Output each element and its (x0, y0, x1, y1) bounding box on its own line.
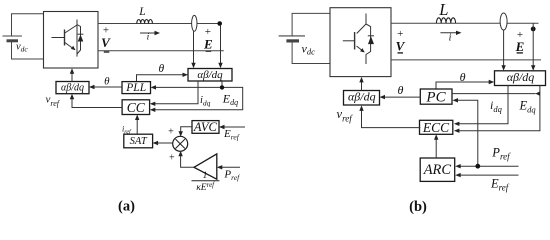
measurement wire from node E to abc/dq (b) (532, 23, 534, 65)
node dot E terminal (a) (217, 21, 222, 26)
svg-text:1: 1 (203, 171, 208, 181)
wire theta PC to abdq4 (b) (385, 96, 420, 98)
measurement wire from ellipse to abc/dq (b) (503, 30, 505, 66)
wire vref CC to abdq2 (a) (72, 99, 122, 108)
sensor ellipse (a) (192, 15, 197, 31)
current arrow i (a) (140, 32, 156, 34)
svg-text:(b): (b) (409, 199, 427, 215)
wire abdq2 to inverter (a) (71, 74, 73, 82)
svg-text:vdc: vdc (16, 42, 28, 54)
battery Vdc (b) (279, 13, 331, 63)
wire bottom return (b) (391, 59, 541, 61)
node dot Pref (b) (475, 164, 480, 169)
svg-text:Eref: Eref (490, 176, 510, 192)
svg-text:+: + (169, 153, 175, 164)
wire Pref to triangle (a) (222, 166, 240, 168)
wire Eref to ARC (b) (460, 174, 518, 176)
measurement wire from node E to abc/dq (a) (220, 25, 222, 63)
IGBT Q2 with diode (b) (343, 14, 374, 65)
sensor ellipse (b) (500, 13, 507, 30)
battery Vdc (a) (3, 14, 44, 59)
transform block abdq2 (a left) (56, 82, 89, 94)
wire Edq to PLL (a) (154, 81, 242, 110)
svg-text:αβ/dq: αβ/dq (197, 69, 223, 81)
PC block (b) (420, 89, 452, 104)
wire sum to SAT (a) (158, 142, 173, 144)
svg-text:+: + (168, 127, 174, 138)
ECC block (b) (420, 120, 453, 134)
svg-text:αβ/dq: αβ/dq (61, 83, 84, 94)
wire Pref to ARC and PC (b) (458, 100, 519, 166)
wire Edq vertical and to ECC (b) (459, 86, 540, 131)
wire AVC to sum (a) (181, 127, 192, 132)
gain triangle 1/kEref (a) (194, 154, 217, 179)
svg-text:i: i (147, 32, 150, 42)
svg-text:L: L (138, 6, 145, 18)
svg-text:κEref: κEref (196, 181, 215, 193)
wire theta PC to abdq3 (b) (436, 82, 490, 89)
ARC block (b) (420, 158, 455, 181)
svg-text:θ: θ (104, 75, 110, 87)
SAT block (a) (124, 134, 153, 148)
wire theta PLL to abdq1 (a) (137, 75, 184, 82)
node dot Edq (a) (220, 85, 224, 89)
current arrow i (b) (440, 32, 457, 34)
svg-text:E: E (515, 39, 525, 54)
svg-text:CC: CC (127, 100, 146, 115)
wire Edq branch to PC (b) (452, 93, 536, 95)
svg-text:Edq: Edq (519, 99, 537, 115)
svg-text:αβ/dq: αβ/dq (507, 70, 535, 84)
svg-text:θ: θ (460, 70, 466, 84)
wire V+ top (a) (98, 23, 221, 25)
wire Eref to AVC (a) (224, 126, 245, 128)
svg-text:vref: vref (46, 94, 61, 109)
svg-text:θ: θ (158, 63, 164, 75)
inverter box U2 (b) (330, 8, 391, 77)
svg-text:vdc: vdc (302, 42, 316, 57)
wire idq to CC (a) (155, 81, 198, 104)
wire bottom return (a) (98, 50, 224, 52)
svg-text:Eref: Eref (223, 128, 240, 142)
svg-text:ECC: ECC (422, 120, 450, 135)
svg-text:idq: idq (200, 95, 211, 108)
node dot E terminal (b) (531, 27, 536, 32)
summing junction (a) (173, 136, 188, 151)
wire idq to ECC (b) (459, 86, 508, 124)
wire theta PLL to abdq2 (a) (94, 86, 122, 88)
PLL block (a) (122, 82, 151, 94)
svg-text:αβ/dq: αβ/dq (348, 90, 376, 104)
transform block abdq3 (b right) (495, 71, 546, 86)
measurement wire from ellipse to abc/dq (a) (193, 31, 195, 63)
inductor L (b) (436, 18, 455, 24)
wire abdq4 to inverter (b) (361, 82, 363, 91)
CC block (a) (122, 100, 150, 115)
svg-text:Edq: Edq (222, 92, 238, 108)
svg-text:PC: PC (425, 89, 446, 105)
wire ARC to ECC (b) (435, 140, 437, 159)
svg-text:θ: θ (397, 83, 403, 97)
wire triangle to sum (a) (181, 156, 194, 167)
AVC block (a) (192, 121, 219, 134)
svg-text:(a): (a) (118, 199, 135, 215)
svg-text:vref: vref (337, 107, 354, 124)
svg-text:Pref: Pref (491, 146, 511, 162)
svg-text:i: i (449, 33, 452, 44)
inductor L (a) (137, 20, 153, 24)
svg-text:AVC: AVC (193, 120, 218, 134)
transform block abdq4 (b left) (344, 91, 380, 106)
svg-text:idq: idq (490, 98, 503, 114)
svg-text:L: L (438, 0, 448, 19)
svg-text:SAT: SAT (130, 136, 148, 147)
svg-text:V: V (101, 35, 111, 50)
svg-text:Pref: Pref (223, 169, 240, 183)
svg-text:ARC: ARC (423, 162, 452, 178)
IGBT Q1 with diode (a) (52, 20, 84, 57)
svg-text:V: V (396, 38, 406, 53)
wire vref ECC to abdq4 (b) (362, 111, 421, 128)
wire iref SAT to CC (a) (136, 120, 138, 135)
inverter box U1 (a) (44, 12, 99, 69)
svg-text:PLL: PLL (125, 82, 146, 94)
transform block abdq1 (a right) (188, 69, 232, 82)
wire V+ top (b) (391, 22, 539, 24)
svg-text:E: E (203, 37, 213, 52)
